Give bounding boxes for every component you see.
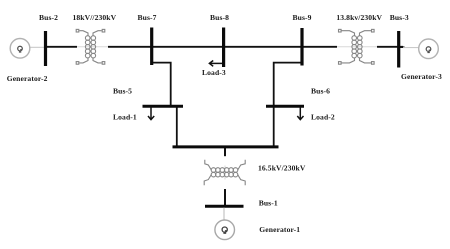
svg-text:Bus-9: Bus-9 — [293, 13, 312, 22]
generator Generator-3 — [419, 39, 439, 59]
bus Bus-1 — [205, 205, 244, 208]
transformer T2 18kV//230kV — [76, 29, 105, 64]
bus Bus-7 — [150, 28, 153, 66]
load Load-1 arrow — [148, 108, 154, 120]
load Load-2 arrow — [297, 108, 303, 120]
bus Bus-9 — [300, 28, 303, 66]
wire Bus-9 step down to Bus-6 — [274, 63, 301, 106]
transformer T1 16.5kV/230kV — [204, 160, 245, 185]
wire generator-2 to Bus-2 (thin gray) — [29, 46, 44, 48]
svg-text:Load-3: Load-3 — [202, 68, 226, 77]
wire gray pass-through under transformer T3 — [337, 46, 377, 48]
wire transformer T1 to Bus-1 — [224, 189, 226, 205]
generator Generator-2 — [10, 39, 30, 59]
wire Bus-5 down to tee — [176, 108, 178, 147]
wire gray pass-through under transformer T2 — [77, 46, 108, 48]
svg-text:18kV//230kV: 18kV//230kV — [73, 13, 117, 22]
svg-text:Bus-1: Bus-1 — [259, 198, 278, 207]
svg-text:Generator-3: Generator-3 — [401, 72, 442, 81]
svg-text:Bus-5: Bus-5 — [113, 87, 132, 96]
svg-text:Generator-2: Generator-2 — [7, 74, 48, 83]
svg-text:Bus-3: Bus-3 — [390, 13, 409, 22]
svg-text:Generator-1: Generator-1 — [259, 225, 300, 234]
bus Bus-3 — [397, 31, 400, 68]
transformer T3 13.8kv/230kV — [339, 29, 375, 64]
wire Bus-2 to transformer T2 (black) — [44, 46, 77, 48]
bus Bus-6 — [266, 105, 304, 108]
wire Bus-7 step down to Bus-5 — [153, 63, 171, 106]
wire transformer T3 to Bus-3 (black) — [377, 46, 403, 48]
svg-text:13.8kv/230kV: 13.8kv/230kV — [336, 13, 382, 22]
wire Bus-3 stub (black) — [400, 46, 405, 48]
load Load-3 arrow — [209, 61, 222, 67]
svg-text:Bus-8: Bus-8 — [210, 13, 229, 22]
svg-text:Bus-6: Bus-6 — [311, 87, 330, 96]
generator Generator-1 — [215, 220, 235, 240]
wire Bus-1 to generator-1 (thin gray) — [223, 208, 225, 222]
bus Bus-2 — [44, 31, 47, 66]
wire transformer T2 to Bus-7 / Bus-8 / Bus-9 main 230kV line — [108, 46, 337, 48]
wire gray pass-through transformer T1 — [224, 166, 226, 180]
svg-text:Bus-2: Bus-2 — [39, 13, 58, 22]
wire Bus-3 to generator-3 (thin gray) — [403, 47, 419, 49]
svg-text:Load-2: Load-2 — [311, 113, 335, 122]
svg-text:16.5kV/230kV: 16.5kV/230kV — [258, 164, 306, 173]
svg-text:Bus-7: Bus-7 — [138, 13, 157, 22]
wire tee down to transformer T1 — [224, 148, 226, 156]
wire Bus-6 down to tee — [273, 108, 275, 147]
bus Bus-8 — [222, 28, 225, 68]
wire tee bar junction — [173, 145, 279, 148]
svg-text:Load-1: Load-1 — [113, 113, 137, 122]
bus Bus-5 — [143, 105, 184, 108]
